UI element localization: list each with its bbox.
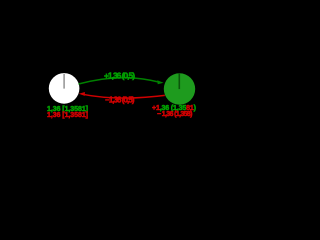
forward arrowhead — [157, 80, 163, 84]
reverse (red) arc wire — [82, 94, 165, 98]
svg-text:− 1,36 (1,358): − 1,36 (1,358) — [157, 111, 193, 118]
forward (green) arc wire — [79, 78, 159, 84]
svg-text:1,36 [1,3581]: 1,36 [1,3581] — [47, 112, 88, 119]
node A hand (radius line) — [63, 74, 65, 89]
svg-text:−1,36 (0,5): −1,36 (0,5) — [105, 96, 135, 105]
node B hand (radius line) — [178, 74, 180, 90]
node B: green circle — [164, 73, 195, 104]
reverse arrowhead — [79, 92, 85, 96]
node A: white circle — [49, 73, 80, 104]
svg-text:+1,36 (0,5): +1,36 (0,5) — [104, 70, 135, 80]
